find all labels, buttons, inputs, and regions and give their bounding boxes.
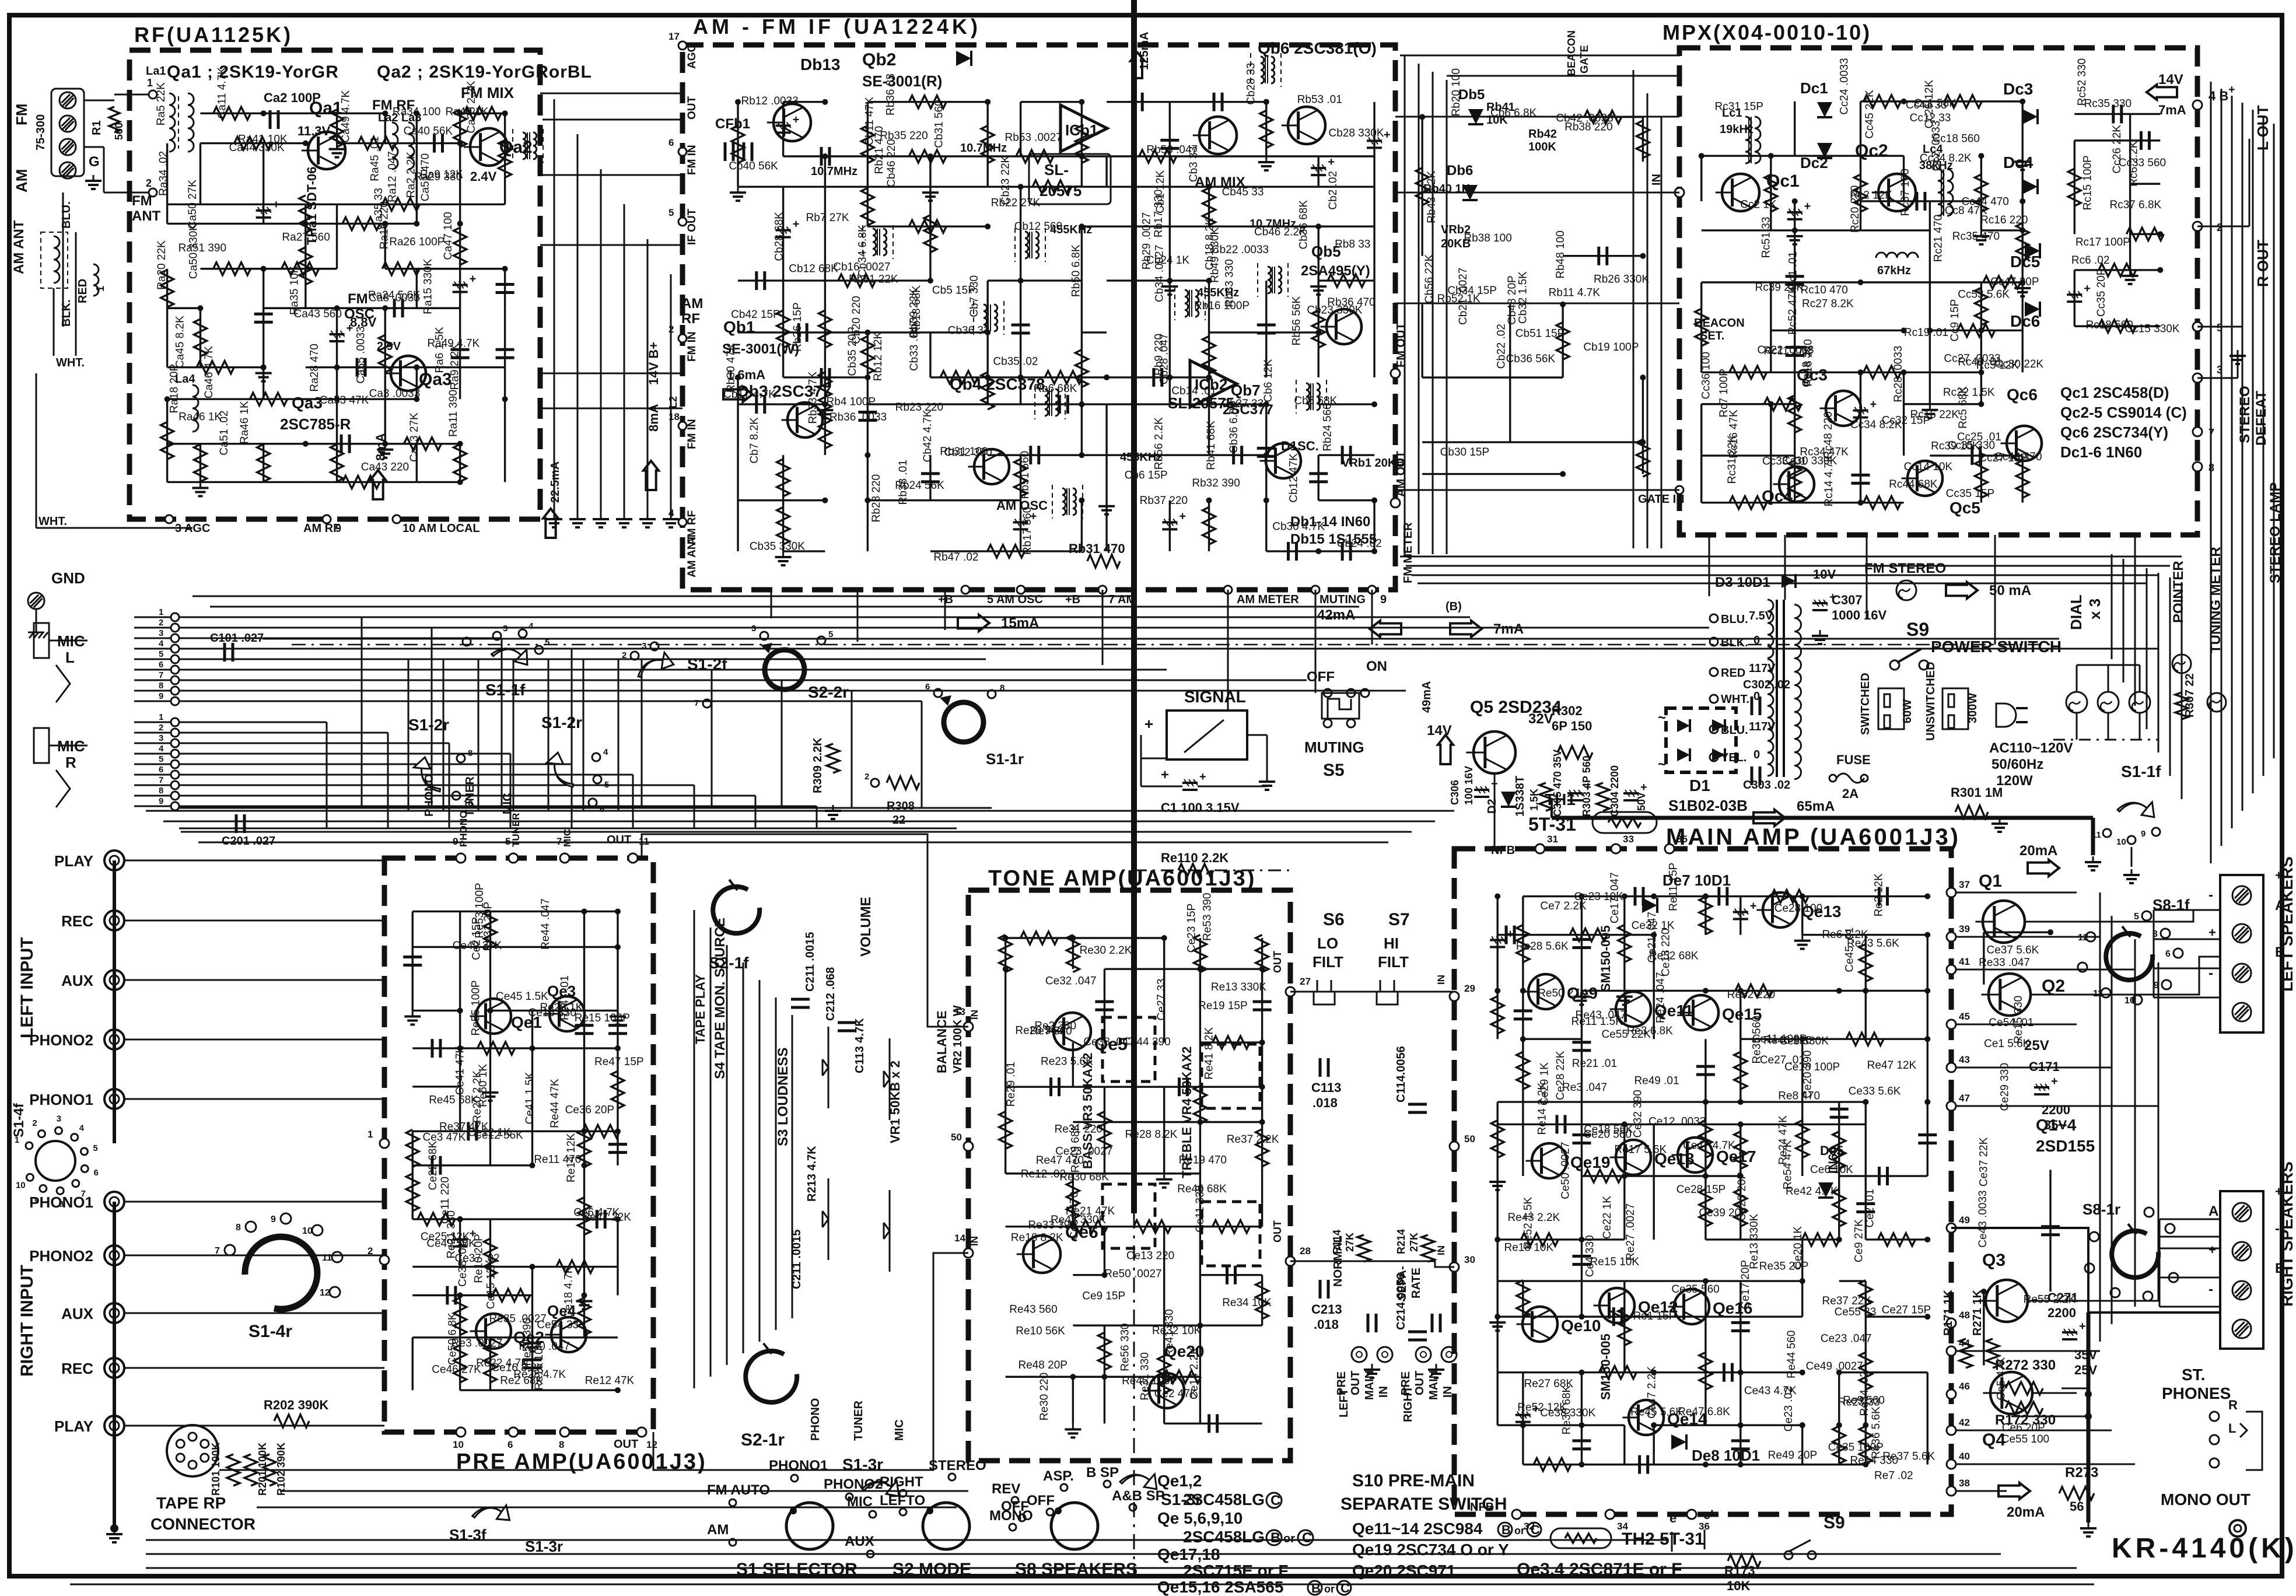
capacitor electrolytic — [330, 333, 345, 335]
svg-text:Dc1: Dc1 — [1800, 79, 1828, 97]
svg-text:Ca50 330K: Ca50 330K — [187, 223, 199, 279]
svg-text:+: + — [1750, 900, 1757, 913]
svg-text:Cc36 100: Cc36 100 — [1700, 352, 1712, 399]
transistor Qe14 — [1629, 1400, 1664, 1435]
15mA arrow — [958, 615, 989, 631]
svg-text:7mA: 7mA — [1493, 621, 1524, 637]
svg-text:10: 10 — [463, 799, 473, 808]
resistor — [1864, 496, 1901, 509]
svg-text:10K: 10K — [1727, 1578, 1750, 1593]
svg-text:Cb35 330K: Cb35 330K — [750, 541, 805, 553]
resistor — [1260, 110, 1273, 148]
svg-text:Cc33 560: Cc33 560 — [2119, 157, 2166, 169]
svg-text:Rc19 .01: Rc19 .01 — [1904, 327, 1948, 339]
junction — [529, 1163, 535, 1168]
wire — [1072, 1174, 1074, 1227]
ground — [1169, 281, 1171, 286]
speaker screw terminal — [2232, 1281, 2251, 1300]
wire — [1373, 187, 1375, 281]
junction — [1924, 1099, 1930, 1105]
wire — [738, 331, 867, 333]
svg-text:125mA: 125mA — [1138, 32, 1151, 70]
wire — [1930, 454, 2022, 456]
resistor — [213, 262, 251, 275]
wire — [1170, 101, 1266, 103]
pad 41 — [1947, 965, 1956, 974]
svg-text:Re43 560: Re43 560 — [1009, 1304, 1057, 1316]
20mA arrows — [2028, 860, 2059, 876]
wire — [1581, 1102, 1583, 1176]
wire — [783, 101, 825, 103]
resistor — [1833, 1132, 1846, 1169]
wire — [459, 1296, 461, 1338]
NFB top pad — [1535, 844, 1545, 853]
junction — [1259, 1119, 1265, 1125]
wire — [504, 399, 506, 482]
transistor Qc1 — [1722, 174, 1759, 211]
resistor — [1695, 309, 1708, 346]
svg-text:5: 5 — [2134, 912, 2139, 922]
svg-text:Rc40 .01: Rc40 .01 — [1958, 356, 2002, 368]
wire — [1770, 404, 1772, 503]
svg-text:e: e — [1669, 1511, 1676, 1525]
ground — [1163, 1174, 1165, 1179]
wire — [1081, 226, 1083, 332]
svg-text:Rb38 220: Rb38 220 — [1564, 121, 1612, 134]
svg-text:Rb26 330K: Rb26 330K — [1594, 274, 1649, 286]
svg-text:STEREO LAMP: STEREO LAMP — [2267, 482, 2283, 583]
svg-text:Cb20 220: Cb20 220 — [850, 296, 863, 344]
svg-text:40: 40 — [1959, 1451, 1970, 1462]
wire — [264, 268, 337, 269]
svg-text:C303 .02: C303 .02 — [1743, 779, 1790, 792]
resistor — [1139, 150, 1177, 163]
wire — [1200, 968, 1262, 970]
junction — [1578, 1422, 1584, 1428]
AGC line — [36, 373, 37, 528]
wire — [412, 1338, 414, 1390]
wire — [1006, 1086, 1105, 1087]
wire — [583, 1010, 585, 1048]
wire — [2022, 282, 2024, 372]
svg-text:FM IN: FM IN — [686, 145, 698, 175]
S1-4r rotary switch — [245, 1237, 317, 1309]
wire — [1623, 897, 1625, 991]
wire — [1208, 281, 1210, 332]
C213 cap — [1319, 1280, 1322, 1298]
svg-text:WHT.: WHT. — [56, 356, 85, 369]
svg-text:8: 8 — [59, 1199, 64, 1209]
svg-text:Ce49 27K: Ce49 27K — [453, 940, 502, 952]
svg-text:Ca46 4.7K: Ca46 4.7K — [203, 346, 215, 398]
capacitor — [1597, 247, 1600, 265]
ground — [262, 367, 264, 373]
wire — [1838, 1373, 1840, 1425]
svg-text:(B): (B) — [1445, 600, 1462, 613]
svg-text:Qc6 2SC734(Y): Qc6 2SC734(Y) — [2060, 423, 2168, 441]
wire — [1163, 1227, 1165, 1326]
svg-text:S5: S5 — [1323, 761, 1345, 780]
svg-text:Re30 220: Re30 220 — [1038, 1373, 1051, 1420]
svg-text:Re44 560: Re44 560 — [1786, 1331, 1798, 1378]
junction — [2020, 279, 2025, 285]
wire — [1081, 185, 1209, 187]
svg-text:Re53 390: Re53 390 — [1202, 893, 1214, 941]
pad 47 — [1947, 1101, 1956, 1111]
svg-text:Q2: Q2 — [2042, 977, 2065, 996]
wire — [1700, 156, 1702, 201]
resistor — [2126, 228, 2164, 240]
svg-text:S8-1r: S8-1r — [2082, 1200, 2120, 1218]
svg-text:PHONO1: PHONO1 — [29, 1091, 93, 1108]
svg-text:Rb7 27K: Rb7 27K — [806, 212, 849, 224]
junction — [457, 1293, 463, 1298]
wire — [1163, 938, 1165, 1042]
svg-text:VOLUME: VOLUME — [858, 897, 874, 957]
svg-text:PHONO2: PHONO2 — [29, 1031, 93, 1049]
wire — [583, 911, 585, 1010]
svg-text:Ce2 47K: Ce2 47K — [1154, 1388, 1198, 1400]
svg-text:50/60Hz: 50/60Hz — [1992, 757, 2043, 772]
wire — [459, 143, 461, 224]
IF transformer Lb5 — [1261, 57, 1264, 83]
svg-text:Cb35 .02: Cb35 .02 — [993, 356, 1038, 368]
capacitor electrolytic — [1733, 911, 1748, 914]
speaker screw terminal — [2232, 1003, 2251, 1021]
junction — [1651, 894, 1657, 900]
svg-text:+: + — [1384, 128, 1391, 141]
resistor — [454, 1345, 467, 1382]
ground — [617, 1010, 618, 1016]
svg-text:R: R — [2228, 1398, 2238, 1412]
junction — [1371, 498, 1377, 503]
svg-text:Ca55 .0033: Ca55 .0033 — [355, 326, 367, 383]
ground — [199, 482, 201, 488]
wire — [1020, 377, 1021, 404]
wire — [1980, 156, 1982, 230]
svg-text:117V: 117V — [1749, 662, 1776, 675]
svg-text:POINTER: POINTER — [2171, 561, 2186, 623]
wire — [988, 376, 1020, 378]
resistor — [1699, 897, 1712, 935]
svg-text:Rb53 .01: Rb53 .01 — [1297, 94, 1342, 106]
MPX bottom drops — [1709, 535, 1710, 596]
wire — [1072, 1377, 1074, 1423]
resistor — [299, 195, 312, 233]
svg-text:RF(UA1125K): RF(UA1125K) — [134, 23, 293, 47]
IF transformer Lb4 — [984, 304, 987, 331]
wire — [1654, 1371, 1803, 1373]
svg-text:Ca13 27K: Ca13 27K — [408, 412, 421, 462]
wire — [867, 226, 988, 228]
svg-text:Cc33 .01: Cc33 .01 — [1762, 455, 1807, 467]
wire — [2022, 456, 2024, 503]
MAIN AMP block (UA6001J3) dashed outline — [1454, 849, 1951, 1514]
svg-text:32V: 32V — [1528, 711, 1553, 727]
wire — [1081, 226, 1170, 228]
junction — [1079, 99, 1084, 105]
wire — [988, 155, 1081, 157]
wire — [1199, 1122, 1201, 1226]
tone IN pad 13 — [964, 1022, 973, 1031]
wire — [1261, 1275, 1263, 1325]
wire — [412, 1294, 490, 1296]
junction — [1738, 1462, 1744, 1468]
svg-text:Rc5 68K: Rc5 68K — [1957, 386, 1969, 429]
junction — [457, 1216, 463, 1222]
capacitor — [1257, 447, 1276, 450]
resistor — [1958, 324, 1995, 337]
svg-text:Cc35 20P: Cc35 20P — [2095, 268, 2108, 317]
svg-text:IF OUT: IF OUT — [686, 208, 698, 245]
junction — [1259, 966, 1265, 972]
junction — [1836, 988, 1842, 993]
capacitor — [1505, 926, 1508, 944]
capacitor — [1029, 446, 1032, 464]
capacitor — [608, 1143, 627, 1146]
svg-text:Cc18 560: Cc18 560 — [1933, 132, 1980, 145]
ground — [412, 1010, 414, 1016]
wire — [490, 1010, 618, 1012]
capacitor — [430, 1039, 433, 1058]
resistor — [1075, 350, 1088, 387]
wire — [1795, 229, 1930, 231]
pad 36 — [1687, 1510, 1696, 1519]
junction — [1263, 401, 1269, 407]
wire — [1318, 279, 1374, 281]
wire — [264, 307, 337, 309]
wire — [1523, 895, 1625, 897]
svg-text:Ce4 330: Ce4 330 — [1584, 1235, 1596, 1277]
IF transformer Lb2 — [873, 229, 876, 256]
wire — [412, 1130, 532, 1132]
between RF and IF — [540, 93, 682, 94]
wire — [304, 223, 306, 308]
wire — [1073, 937, 1164, 939]
resistor — [379, 335, 391, 372]
svg-text:20mA: 20mA — [2020, 843, 2057, 859]
junction — [1738, 1370, 1744, 1375]
resistor — [1730, 366, 1767, 379]
svg-text:RATE: RATE — [1410, 1268, 1423, 1298]
wire — [1860, 372, 1861, 456]
svg-text:Ra51 390: Ra51 390 — [178, 242, 226, 254]
capacitor — [1514, 1009, 1532, 1012]
wire — [200, 398, 337, 400]
svg-text:Rc52 330: Rc52 330 — [2076, 58, 2088, 106]
capacitor — [1638, 1455, 1641, 1474]
svg-text:OUT: OUT — [1272, 951, 1283, 973]
wire — [1318, 403, 1374, 405]
svg-text:GATE: GATE — [1578, 45, 1590, 73]
svg-text:Ce11 220: Ce11 220 — [439, 1177, 452, 1224]
svg-text:Cb19 100P: Cb19 100P — [1583, 341, 1639, 353]
svg-text:7: 7 — [159, 670, 163, 680]
junction — [1738, 1099, 1744, 1105]
transistor AM MIX — [1199, 117, 1237, 154]
svg-text:27: 27 — [1300, 976, 1311, 987]
svg-text:L2: L2 — [667, 396, 679, 408]
svg-text:Ra6 1.5K: Ra6 1.5K — [433, 327, 446, 373]
S8-1r ring switch — [2112, 1231, 2158, 1277]
junction — [1259, 966, 1265, 972]
wire — [2074, 270, 2075, 326]
svg-text:6: 6 — [2165, 949, 2171, 959]
wire — [1581, 897, 1583, 991]
svg-text:Ce13 220: Ce13 220 — [1126, 1250, 1174, 1262]
wire — [1794, 372, 1796, 456]
ground — [1794, 230, 1796, 236]
resistor — [1075, 125, 1088, 163]
wire — [1865, 1281, 1867, 1317]
svg-text:Ce23 .047: Ce23 .047 — [1821, 1332, 1872, 1345]
resistor — [1833, 1189, 1846, 1226]
svg-text:S1-3r: S1-3r — [1161, 1490, 1202, 1508]
svg-text:42mA: 42mA — [1317, 607, 1355, 623]
wire — [306, 223, 417, 225]
junction — [414, 365, 419, 370]
capacitor — [2112, 104, 2115, 123]
resistor — [611, 1071, 624, 1108]
capacitor — [1253, 1000, 1272, 1003]
wire — [1741, 1038, 1803, 1040]
svg-text:Ce54 470: Ce54 470 — [1068, 1192, 1080, 1240]
wire — [929, 187, 931, 281]
capacitor — [451, 348, 470, 351]
wire — [1929, 201, 1931, 230]
resistor — [1734, 1132, 1747, 1169]
svg-text:Rc37 6.8K: Rc37 6.8K — [2109, 199, 2161, 211]
svg-text:+: + — [793, 113, 800, 126]
resistor — [1584, 1170, 1622, 1182]
wire — [1704, 897, 1706, 935]
wire — [199, 308, 201, 367]
capacitor — [254, 313, 273, 316]
wire — [1073, 1226, 1104, 1227]
svg-text:38: 38 — [1959, 1478, 1970, 1489]
wire — [1261, 938, 1263, 969]
wire — [1104, 968, 1200, 970]
wire — [1208, 187, 1210, 226]
junction — [1578, 1237, 1584, 1242]
resistor — [213, 107, 251, 120]
capacitor — [1633, 887, 1636, 906]
wire — [531, 1267, 533, 1338]
junction — [261, 266, 267, 272]
junction — [1978, 327, 1984, 333]
svg-text:Cb28 330K: Cb28 330K — [1328, 127, 1384, 139]
junction — [1901, 327, 1907, 333]
resistor — [818, 310, 831, 348]
svg-text:9: 9 — [271, 1214, 276, 1224]
junction — [822, 99, 828, 105]
wire — [1562, 304, 1563, 377]
treble control dashed box — [1202, 1044, 1260, 1108]
svg-text:SM150-005: SM150-005 — [1598, 1333, 1613, 1400]
svg-text:+: + — [346, 322, 353, 335]
svg-text:Cb34 15P: Cb34 15P — [1447, 285, 1497, 297]
wire — [1021, 376, 1107, 378]
svg-text:Rc37 100: Rc37 100 — [1899, 169, 1912, 216]
wire — [1170, 226, 1266, 228]
wire — [1208, 332, 1210, 377]
capacitor electrolytic — [1787, 211, 1803, 213]
resistor — [838, 274, 876, 287]
svg-text:KR-4140(K): KR-4140(K) — [2112, 1533, 2296, 1564]
svg-text:8: 8 — [159, 786, 163, 796]
wire — [2130, 233, 2161, 235]
resistor — [981, 125, 994, 163]
wire — [1497, 934, 1523, 936]
svg-text:ST.: ST. — [2182, 1366, 2205, 1384]
svg-text:1.5K: 1.5K — [1528, 789, 1540, 811]
wire — [1199, 1087, 1201, 1122]
resistor — [818, 411, 831, 449]
wire — [1739, 897, 1741, 935]
svg-text:1: 1 — [94, 286, 106, 292]
svg-text:Re45 5.6K: Re45 5.6K — [1630, 1406, 1683, 1419]
svg-text:+: + — [1507, 928, 1514, 940]
svg-text:Rb33 330: Rb33 330 — [1224, 259, 1236, 307]
wire — [1104, 1226, 1200, 1227]
svg-text:Ce49 .0027: Ce49 .0027 — [1806, 1360, 1863, 1373]
capacitor — [356, 358, 359, 377]
junction — [382, 441, 388, 447]
wire — [199, 444, 201, 482]
svg-text:8mA: 8mA — [646, 404, 661, 432]
mic wires fan — [179, 617, 362, 618]
ground — [1801, 935, 1803, 941]
junction — [2048, 929, 2053, 935]
junction — [1315, 548, 1321, 554]
IF transformer Lb8 — [1185, 290, 1188, 317]
svg-text:Qe19: Qe19 — [1570, 1153, 1611, 1171]
svg-text:A&B SP: A&B SP — [1112, 1488, 1165, 1504]
wire — [867, 187, 869, 226]
svg-text:FM: FM — [132, 193, 152, 209]
junction — [1800, 894, 1805, 900]
pad 43 — [1947, 1063, 1956, 1072]
junction — [1792, 198, 1798, 204]
svg-text:REC: REC — [61, 912, 93, 930]
wire — [1702, 454, 1795, 456]
junction — [2157, 267, 2163, 273]
ground — [1265, 156, 1267, 162]
junction — [1263, 452, 1269, 458]
resistor — [1788, 460, 1801, 498]
svg-text:Rb6 68K: Rb6 68K — [1034, 383, 1077, 395]
capacitor — [1723, 1363, 1725, 1382]
svg-text:Rb56 56K: Rb56 56K — [1290, 296, 1303, 345]
wire — [1739, 1425, 1741, 1464]
svg-text:Rb31 470: Rb31 470 — [1069, 541, 1125, 556]
junction — [1836, 1422, 1842, 1428]
resistor — [161, 269, 174, 307]
wire — [306, 443, 385, 444]
IF transformer Lb9 — [1306, 383, 1310, 410]
svg-text:Ce32 .047: Ce32 .047 — [1045, 975, 1097, 987]
svg-text:67kHz: 67kHz — [1877, 264, 1911, 277]
junction — [1018, 278, 1024, 283]
wire — [1794, 101, 1796, 156]
switch S1-1f — [491, 639, 532, 668]
transistor Qb7 2SC377 — [1266, 443, 1301, 478]
svg-text:5: 5 — [604, 780, 609, 790]
svg-text:Re19 470: Re19 470 — [1179, 1154, 1227, 1167]
ground — [384, 444, 386, 450]
svg-text:14V B+: 14V B+ — [646, 342, 661, 385]
svg-text:Rc6 .02: Rc6 .02 — [2071, 254, 2109, 267]
